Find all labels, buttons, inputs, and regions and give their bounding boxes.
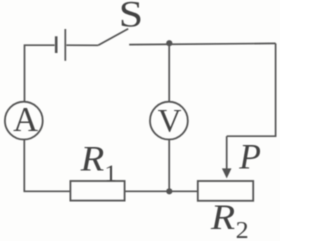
ammeter A circle — [5, 102, 43, 140]
svg-text:V: V — [158, 104, 182, 140]
svg-text:A: A — [13, 100, 38, 139]
node junction dot bottom — [166, 188, 172, 194]
node junction dot top — [166, 40, 172, 46]
wiper arrow P shaft — [226, 136, 228, 170]
wire battery to switch pivot — [66, 44, 98, 46]
svg-text:P: P — [238, 137, 261, 177]
voltmeter V circle — [150, 102, 188, 140]
svg-text:S: S — [119, 0, 143, 35]
wire ammeter down / bottom-left — [24, 139, 70, 191]
battery cell positive plate (long thin) — [64, 29, 66, 61]
wiper arrowhead — [222, 168, 232, 178]
wire switch contact to top-right corner — [129, 43, 275, 44]
battery cell negative plate (short thick) — [55, 36, 58, 53]
wire top-left segment — [25, 45, 55, 102]
wire voltmeter top branch — [168, 43, 170, 102]
rheostat R2 body — [198, 181, 253, 201]
switch S blade — [98, 29, 128, 46]
wire right vertical down to wiper feed — [227, 43, 276, 136]
resistor R1 body — [70, 181, 124, 201]
wire R1 to R2 bottom segment — [125, 190, 198, 192]
wire voltmeter bottom branch — [168, 139, 170, 191]
